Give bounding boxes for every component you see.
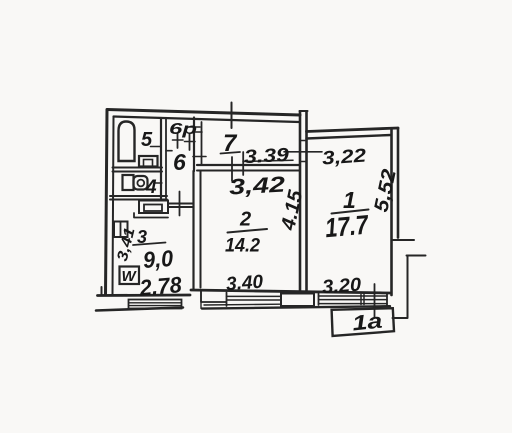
svg-text:3.20: 3.20 bbox=[321, 275, 362, 299]
svg-text:6: 6 bbox=[173, 149, 186, 175]
svg-text:3,42: 3,42 bbox=[228, 172, 286, 200]
svg-text:3.39: 3.39 bbox=[244, 145, 291, 168]
svg-text:W: W bbox=[122, 268, 138, 285]
svg-text:3,22: 3,22 bbox=[321, 145, 367, 169]
svg-text:6р: 6р bbox=[169, 121, 197, 138]
svg-text:5: 5 bbox=[141, 129, 153, 151]
svg-text:14.2: 14.2 bbox=[225, 235, 260, 257]
svg-text:9,0: 9,0 bbox=[142, 245, 174, 273]
svg-text:4: 4 bbox=[145, 177, 157, 198]
svg-text:2: 2 bbox=[239, 209, 251, 231]
svg-text:3.40: 3.40 bbox=[225, 272, 264, 296]
svg-text:7: 7 bbox=[223, 130, 238, 157]
svg-text:2.78: 2.78 bbox=[138, 272, 183, 301]
svg-text:1: 1 bbox=[343, 187, 356, 213]
svg-text:17.7: 17.7 bbox=[324, 209, 371, 243]
svg-text:1а: 1а bbox=[351, 309, 384, 335]
